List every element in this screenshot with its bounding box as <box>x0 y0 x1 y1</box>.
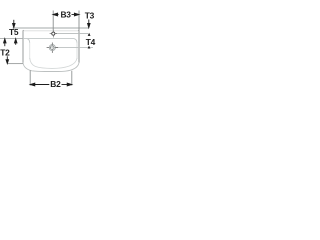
bowl front curve <box>30 58 77 68</box>
bowl rear-left corner <box>27 39 29 43</box>
T2 down arrow <box>6 56 9 63</box>
T3 dimension arrow (down to wall line) <box>88 20 91 28</box>
B2 extension line right <box>71 71 73 86</box>
bowl left edge <box>29 43 31 60</box>
basin outer rear edge <box>24 30 78 32</box>
wall line <box>13 27 90 29</box>
bowl right edge <box>76 43 78 60</box>
drain symbol <box>47 43 59 53</box>
T4 down arrow (to drain leader) <box>88 46 91 49</box>
drain leader line <box>56 47 94 49</box>
svg-text:T4: T4 <box>86 37 96 47</box>
basin outer left edge <box>22 30 25 63</box>
T5 up arrow <box>14 39 17 45</box>
B2 extension line left <box>29 70 31 85</box>
basin outer right edge <box>77 30 80 63</box>
svg-text:T2: T2 <box>0 47 10 57</box>
B2 dimension line and arrows <box>30 83 72 86</box>
svg-text:T5: T5 <box>9 27 19 37</box>
B3 extension line left (to tap hole) <box>52 11 54 31</box>
T5 down arrow <box>13 20 16 28</box>
B3 dimension line and arrows <box>53 13 79 16</box>
svg-text:B3: B3 <box>60 9 71 19</box>
svg-text:B2: B2 <box>50 79 61 89</box>
T2 front leader line <box>7 63 23 65</box>
svg-text:T3: T3 <box>85 10 95 20</box>
basin outer front curve <box>23 62 79 71</box>
tap hole symbol <box>50 30 57 38</box>
bowl rear edge with T5/T2 extension line <box>0 38 23 40</box>
tap hole leader line <box>56 33 89 35</box>
T3/T4 shared up arrow (to tap leader) <box>88 33 91 36</box>
bowl rear-right corner <box>74 39 77 43</box>
T2 up arrow <box>4 39 7 47</box>
B3 extension line right <box>78 11 80 31</box>
